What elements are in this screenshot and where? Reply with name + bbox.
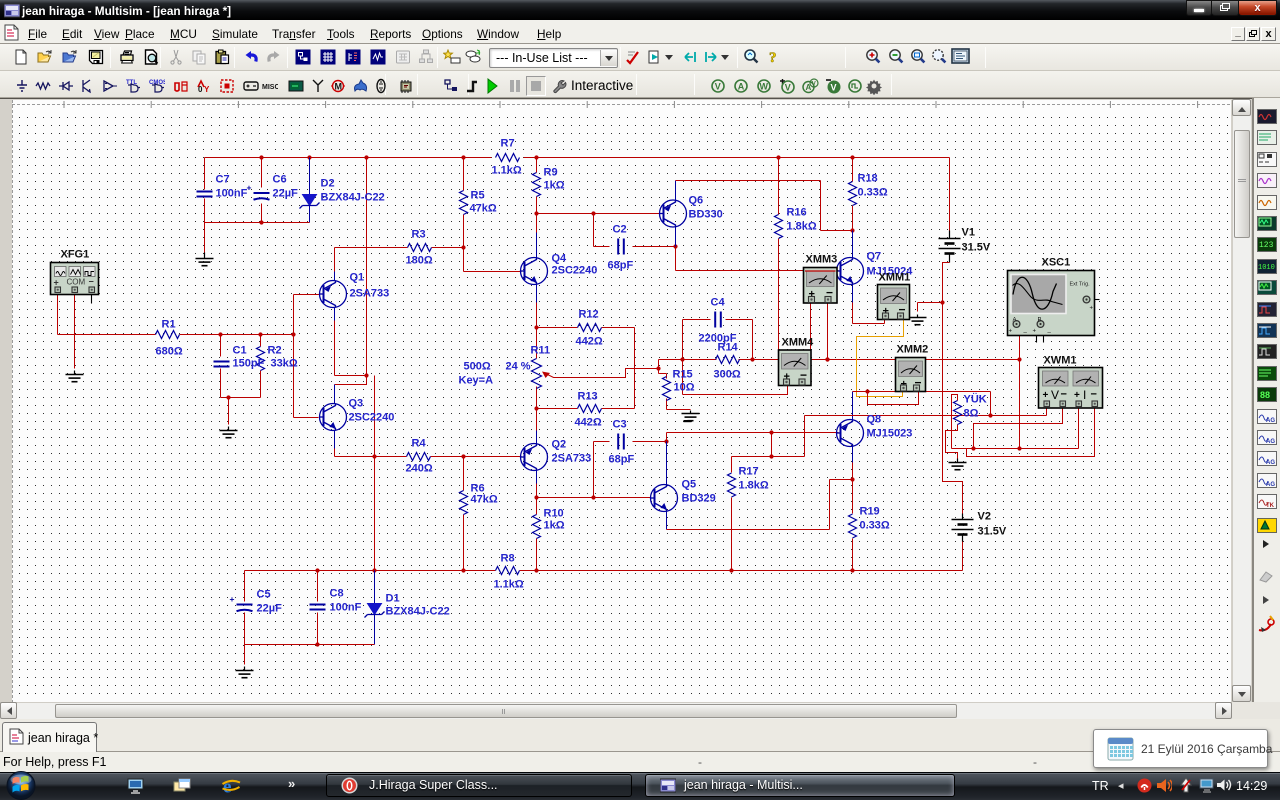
svg-text:R8: R8 xyxy=(501,553,515,565)
svg-text:R7: R7 xyxy=(501,138,515,150)
svg-text:88: 88 xyxy=(1260,390,1270,400)
svg-text:R12: R12 xyxy=(579,309,599,321)
svg-text:2SC2240: 2SC2240 xyxy=(349,412,395,424)
svg-text:1.1kΩ: 1.1kΩ xyxy=(492,165,522,177)
svg-text:−: − xyxy=(1061,389,1067,401)
svg-text:D2: D2 xyxy=(321,178,335,190)
svg-text:10Ω: 10Ω xyxy=(674,382,695,394)
svg-text:Key=A: Key=A xyxy=(459,375,494,387)
svg-text:R16: R16 xyxy=(787,207,807,219)
svg-text:0.33Ω: 0.33Ω xyxy=(858,187,888,199)
svg-text:Q7: Q7 xyxy=(867,251,882,263)
svg-text:2SC2240: 2SC2240 xyxy=(552,265,598,277)
svg-text:+: + xyxy=(1043,390,1049,401)
svg-text:+: + xyxy=(54,278,59,288)
svg-text:C7: C7 xyxy=(216,174,230,186)
svg-text:300Ω: 300Ω xyxy=(714,369,741,381)
svg-text:V2: V2 xyxy=(978,511,991,523)
svg-text:−: − xyxy=(1091,389,1097,401)
svg-text:R2: R2 xyxy=(268,345,282,357)
svg-text:68pF: 68pF xyxy=(608,260,634,272)
svg-text:31.5V: 31.5V xyxy=(978,526,1007,538)
svg-text:R19: R19 xyxy=(860,506,880,518)
svg-text:TK: TK xyxy=(1266,503,1275,509)
svg-text:XWM1: XWM1 xyxy=(1044,355,1077,367)
svg-text:240Ω: 240Ω xyxy=(406,463,433,475)
svg-text:AG: AG xyxy=(1266,418,1275,424)
svg-text:Q6: Q6 xyxy=(689,195,704,207)
svg-text:e: e xyxy=(223,777,231,798)
svg-text:V1: V1 xyxy=(962,227,975,239)
svg-text:100nF: 100nF xyxy=(330,602,362,614)
svg-text:Q2: Q2 xyxy=(552,439,567,451)
svg-text:BD329: BD329 xyxy=(682,493,716,505)
svg-text:XMM1: XMM1 xyxy=(879,272,911,284)
svg-text:Q5: Q5 xyxy=(682,479,697,491)
svg-text:1.8kΩ: 1.8kΩ xyxy=(739,480,769,492)
svg-text:R13: R13 xyxy=(578,391,598,403)
svg-text:R11: R11 xyxy=(531,345,551,357)
svg-text:1kΩ: 1kΩ xyxy=(544,520,565,532)
svg-text:BD330: BD330 xyxy=(689,209,723,221)
svg-text:R14: R14 xyxy=(718,342,739,354)
svg-text:_: _ xyxy=(1047,328,1052,334)
svg-text:31.5V: 31.5V xyxy=(962,242,991,254)
svg-text:R9: R9 xyxy=(544,167,558,179)
svg-text:47kΩ: 47kΩ xyxy=(471,494,498,506)
svg-text:2SA733: 2SA733 xyxy=(350,288,390,300)
svg-text:680Ω: 680Ω xyxy=(156,346,183,358)
svg-text:1010: 1010 xyxy=(1258,264,1275,272)
svg-text:R18: R18 xyxy=(858,173,878,185)
svg-text:R17: R17 xyxy=(739,466,759,478)
svg-text:180Ω: 180Ω xyxy=(406,255,433,267)
svg-text:R15: R15 xyxy=(673,369,693,381)
svg-text:442Ω: 442Ω xyxy=(575,417,602,429)
svg-text:150pF: 150pF xyxy=(233,358,265,370)
svg-text:Q4: Q4 xyxy=(552,253,568,265)
svg-text:AG: AG xyxy=(1266,482,1275,488)
svg-text:500Ω: 500Ω xyxy=(464,361,491,373)
svg-text:C8: C8 xyxy=(330,588,344,600)
svg-text:123: 123 xyxy=(1259,241,1274,250)
svg-text:47kΩ: 47kΩ xyxy=(470,203,497,215)
svg-text:+: + xyxy=(1090,306,1094,312)
svg-text:C1: C1 xyxy=(233,345,247,357)
svg-text:AG: AG xyxy=(1266,460,1275,466)
svg-text:XFG1: XFG1 xyxy=(61,249,90,261)
svg-text:Q8: Q8 xyxy=(867,414,882,426)
svg-text:XMM2: XMM2 xyxy=(897,344,929,356)
svg-text:68pF: 68pF xyxy=(609,454,635,466)
svg-text:8Ω: 8Ω xyxy=(964,408,979,420)
svg-text:1.1kΩ: 1.1kΩ xyxy=(494,579,524,591)
svg-text:COM: COM xyxy=(67,278,86,287)
svg-text:_: _ xyxy=(1023,328,1028,334)
svg-text:XMM4: XMM4 xyxy=(782,337,815,349)
svg-text:0.33Ω: 0.33Ω xyxy=(860,520,890,532)
svg-text:B: B xyxy=(1038,318,1042,324)
svg-text:R3: R3 xyxy=(412,229,426,241)
svg-text:D1: D1 xyxy=(386,593,400,605)
svg-text:AG: AG xyxy=(1266,439,1275,445)
svg-text:Ext Trig.: Ext Trig. xyxy=(1070,282,1091,288)
svg-text:BZX84J-C22: BZX84J-C22 xyxy=(321,192,385,204)
svg-text:1.8kΩ: 1.8kΩ xyxy=(787,221,817,233)
svg-text:1kΩ: 1kΩ xyxy=(544,180,565,192)
svg-text:C4: C4 xyxy=(711,297,726,309)
svg-text:R4: R4 xyxy=(412,438,427,450)
svg-text:33kΩ: 33kΩ xyxy=(271,358,298,370)
svg-text:XMM3: XMM3 xyxy=(806,254,838,266)
svg-text:R1: R1 xyxy=(162,319,176,331)
svg-text:2SA733: 2SA733 xyxy=(552,453,592,465)
svg-text:24 %: 24 % xyxy=(506,361,531,373)
svg-text:+: + xyxy=(230,594,235,604)
svg-text:A: A xyxy=(1013,318,1017,324)
svg-text:C3: C3 xyxy=(613,419,627,431)
svg-text:22µF: 22µF xyxy=(273,188,299,200)
svg-text:Q1: Q1 xyxy=(350,272,365,284)
svg-text:BZX84J-C22: BZX84J-C22 xyxy=(386,606,450,618)
svg-text:YÜK: YÜK xyxy=(964,393,987,406)
svg-text:442Ω: 442Ω xyxy=(576,336,603,348)
svg-text:R5: R5 xyxy=(471,190,485,202)
svg-text:XSC1: XSC1 xyxy=(1042,257,1071,269)
svg-text:−: − xyxy=(89,277,94,287)
svg-text:V: V xyxy=(1051,388,1059,402)
svg-text:C2: C2 xyxy=(613,224,627,236)
svg-text:+: + xyxy=(1033,329,1037,335)
svg-text:100nF: 100nF xyxy=(216,188,248,200)
svg-text:Q3: Q3 xyxy=(349,398,364,410)
svg-text:I: I xyxy=(1083,388,1086,402)
svg-text:C6: C6 xyxy=(273,174,287,186)
svg-text:MJ15023: MJ15023 xyxy=(867,428,913,440)
svg-text:R10: R10 xyxy=(544,508,564,520)
svg-text:C5: C5 xyxy=(257,589,271,601)
svg-text:22µF: 22µF xyxy=(257,603,283,615)
svg-text:+: + xyxy=(1074,390,1080,401)
svg-text:+: + xyxy=(1009,329,1013,335)
